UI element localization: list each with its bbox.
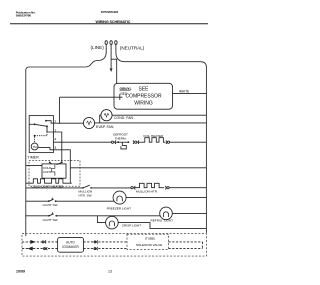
svg-text:WIRING SCHEMATIC: WIRING SCHEMATIC: [96, 20, 131, 24]
wire: [114, 141, 129, 143]
svg-text:CRISP LIGHT: CRISP LIGHT: [122, 224, 141, 228]
solenoid valve dashed box: [127, 234, 169, 249]
svg-text:(LINE): (LINE): [91, 45, 105, 50]
timer terminal numbers: [54, 120, 56, 150]
svg-text:REFRIG. LIGHT: REFRIG. LIGHT: [151, 219, 174, 223]
label GRN/YL: [120, 87, 132, 91]
arrow connector right: [30, 241, 35, 244]
timer internal term1 link: [47, 126, 53, 132]
label TIMER: [28, 155, 40, 159]
label MULLION HTR SW: [79, 189, 93, 197]
timer contact dot left: [34, 123, 36, 125]
wire row2: [56, 215, 160, 217]
timer cam dashed link 2: [34, 137, 36, 144]
light switch 2: [48, 215, 50, 217]
title WIRING SCHEMATIC: [96, 20, 131, 24]
timer box: [29, 116, 53, 153]
svg-text:TM: TM: [33, 145, 38, 149]
svg-text:TIMER: TIMER: [28, 155, 40, 159]
svg-text:COND. FAN: COND. FAN: [114, 116, 134, 120]
wire branch to cond fan: [100, 115, 101, 123]
timer motor TM: [31, 143, 38, 150]
white wire compressor: [173, 93, 207, 95]
svg-text:THERM.: THERM.: [115, 136, 127, 140]
defrost thermostat capillary: [121, 142, 126, 149]
header rule: [10, 23, 208, 25]
label TUBE: [145, 236, 155, 240]
wire mullion to bus: [169, 187, 206, 189]
mullion connector: [131, 187, 133, 189]
label DEFROST THERM: [113, 133, 128, 141]
cold control bellows: [52, 164, 55, 176]
timer wire to term2: [46, 121, 53, 124]
svg-text:EVAP. FAN: EVAP. FAN: [96, 125, 114, 129]
svg-text:MULLION HTR.: MULLION HTR.: [136, 190, 158, 194]
solenoid wires to return loop: [169, 241, 203, 243]
model number label: [101, 10, 119, 14]
riser cold cont heater: [69, 168, 71, 183]
wire term2 to junction: [53, 122, 60, 124]
svg-text:(NEUTRAL): (NEUTRAL): [120, 46, 145, 51]
icemaker outer dashed box: [22, 234, 206, 257]
label LIGHT SW 2: [43, 218, 59, 222]
svg-text:WIRING: WIRING: [134, 101, 153, 107]
svg-text:COIL HEATER: COIL HEATER: [143, 134, 164, 138]
defrost heater wire: [53, 141, 111, 143]
red wire terminal tick: [119, 94, 121, 100]
svg-text:FRT22RGW3: FRT22RGW3: [101, 10, 119, 14]
label RED: [121, 92, 128, 96]
mullion connector 2: [164, 186, 167, 190]
cond fan motor: [101, 110, 112, 121]
cold control box: [42, 164, 66, 178]
red wire compressor: [60, 96, 123, 98]
cold control contact lead: [50, 162, 52, 164]
footer date: [16, 270, 25, 274]
ground arrow: [110, 68, 113, 72]
crisp light: [106, 216, 119, 229]
timer cam dot: [34, 135, 36, 137]
coil heater element: [143, 138, 165, 143]
connector pair: [132, 140, 135, 144]
wire term1 riser to cold control: [53, 132, 61, 162]
plug prong line: [105, 41, 107, 49]
cold control feed: [26, 164, 42, 166]
crisp branch: [97, 216, 105, 223]
wire freezer light to bus: [126, 197, 206, 199]
evap fan motor: [83, 117, 94, 128]
svg-text:ICEMAKER: ICEMAKER: [62, 245, 79, 249]
label WHITE: [179, 89, 189, 93]
icemaker right wire 2: [84, 248, 128, 250]
wire coil heater to bus: [170, 141, 207, 143]
label COND FAN: [114, 116, 134, 120]
dashed control box: [29, 160, 80, 186]
svg-text:SOLENOID VALVE: SOLENOID VALVE: [136, 243, 162, 247]
icemaker right wire 1: [84, 241, 128, 243]
timer motor to term3: [38, 148, 53, 150]
publication no label: [16, 11, 36, 18]
compressor box: [114, 83, 173, 109]
label COLD CONT HEATER: [32, 184, 65, 188]
wire evap fan to bus: [95, 122, 207, 124]
label LINE: [91, 45, 105, 50]
svg-text:LIGHT SW.: LIGHT SW.: [43, 218, 59, 222]
label EVAP FAN: [96, 125, 114, 129]
mullion heater label: [136, 190, 158, 194]
green wire to compressor: [111, 59, 117, 83]
label LIGHT SW 1: [43, 203, 59, 207]
svg-text:WHITE: WHITE: [179, 89, 189, 93]
label NEUTRAL: [120, 46, 145, 51]
connector plug: [111, 141, 113, 143]
label COIL HEATER: [143, 134, 164, 138]
timer contact dot upper: [45, 120, 47, 122]
svg-text:4: 4: [54, 138, 56, 142]
wire red riser to timer term2: [59, 97, 61, 123]
timer contact dot lower: [46, 125, 48, 127]
wire cond fan to bus: [112, 114, 206, 116]
mullion heater element: [133, 183, 164, 187]
defrost thermostat dots: [117, 141, 119, 143]
label SOLENOID VALVE: [136, 243, 162, 247]
label CRISP LIGHT: [122, 224, 141, 228]
ground wire: [110, 49, 112, 69]
svg-text:5995234786: 5995234786: [16, 14, 32, 18]
svg-text:HTR. SW.: HTR. SW.: [79, 193, 93, 197]
timer contact stub: [29, 123, 34, 125]
svg-text:SEE: SEE: [138, 87, 149, 93]
compressor text: [125, 87, 162, 107]
connector: [42, 241, 44, 243]
arrow connector left: [29, 247, 34, 250]
svg-text:(TUBE): (TUBE): [145, 236, 155, 240]
crisp return wire: [118, 223, 206, 229]
connector wire2: [44, 248, 46, 250]
wire term3 to neutral: [53, 150, 70, 168]
label REFRIG LIGHT: [151, 219, 174, 223]
svg-text:FREEZER LIGHT: FREEZER LIGHT: [107, 207, 132, 211]
light switch 1: [48, 200, 50, 202]
svg-text:RED: RED: [121, 92, 128, 96]
timer switch arm: [35, 124, 47, 126]
wire fan feed: [60, 122, 84, 124]
svg-text:CONT.: CONT.: [43, 170, 52, 174]
wire neutral bus right: [116, 49, 206, 233]
auto icemaker box: [58, 238, 84, 253]
connector: [165, 140, 168, 144]
refrig light: [160, 207, 173, 220]
cold control arm: [57, 162, 62, 164]
plug prong ground: [110, 41, 112, 49]
footer page number: [108, 270, 112, 274]
svg-text:AUTO: AUTO: [66, 240, 75, 244]
timer cam dashed link: [46, 127, 48, 135]
label COLD CONT: [43, 166, 52, 174]
plug prong neutral: [115, 41, 117, 49]
cold control heater wire: [26, 179, 72, 183]
solenoid return dashed vertical: [202, 242, 204, 249]
mullion switch wire: [26, 187, 82, 189]
icemaker wire 1: [22, 241, 58, 243]
svg-text:GRN/YL: GRN/YL: [120, 87, 132, 91]
cold control dots: [49, 162, 51, 164]
mullion switch: [82, 187, 84, 189]
icemaker wire 2: [22, 248, 58, 250]
freezer light: [113, 191, 126, 204]
timer cam dashed horizontal: [35, 135, 47, 137]
label FREEZER LIGHT: [107, 207, 132, 211]
svg-text:LIGHT SW.: LIGHT SW.: [43, 203, 59, 207]
svg-text:13: 13: [108, 270, 112, 274]
light row 2 wire: [26, 215, 49, 217]
wire line bus left: [26, 49, 106, 237]
wire: [137, 141, 143, 143]
wire to freezer light: [56, 200, 115, 202]
mullion wire: [91, 187, 131, 189]
svg-text:COMPRESSOR: COMPRESSOR: [125, 94, 162, 100]
svg-text:10/99: 10/99: [16, 270, 25, 274]
refrig return wire: [172, 212, 206, 214]
light row 1 wire: [26, 200, 48, 202]
timer motor return wire: [70, 167, 206, 169]
